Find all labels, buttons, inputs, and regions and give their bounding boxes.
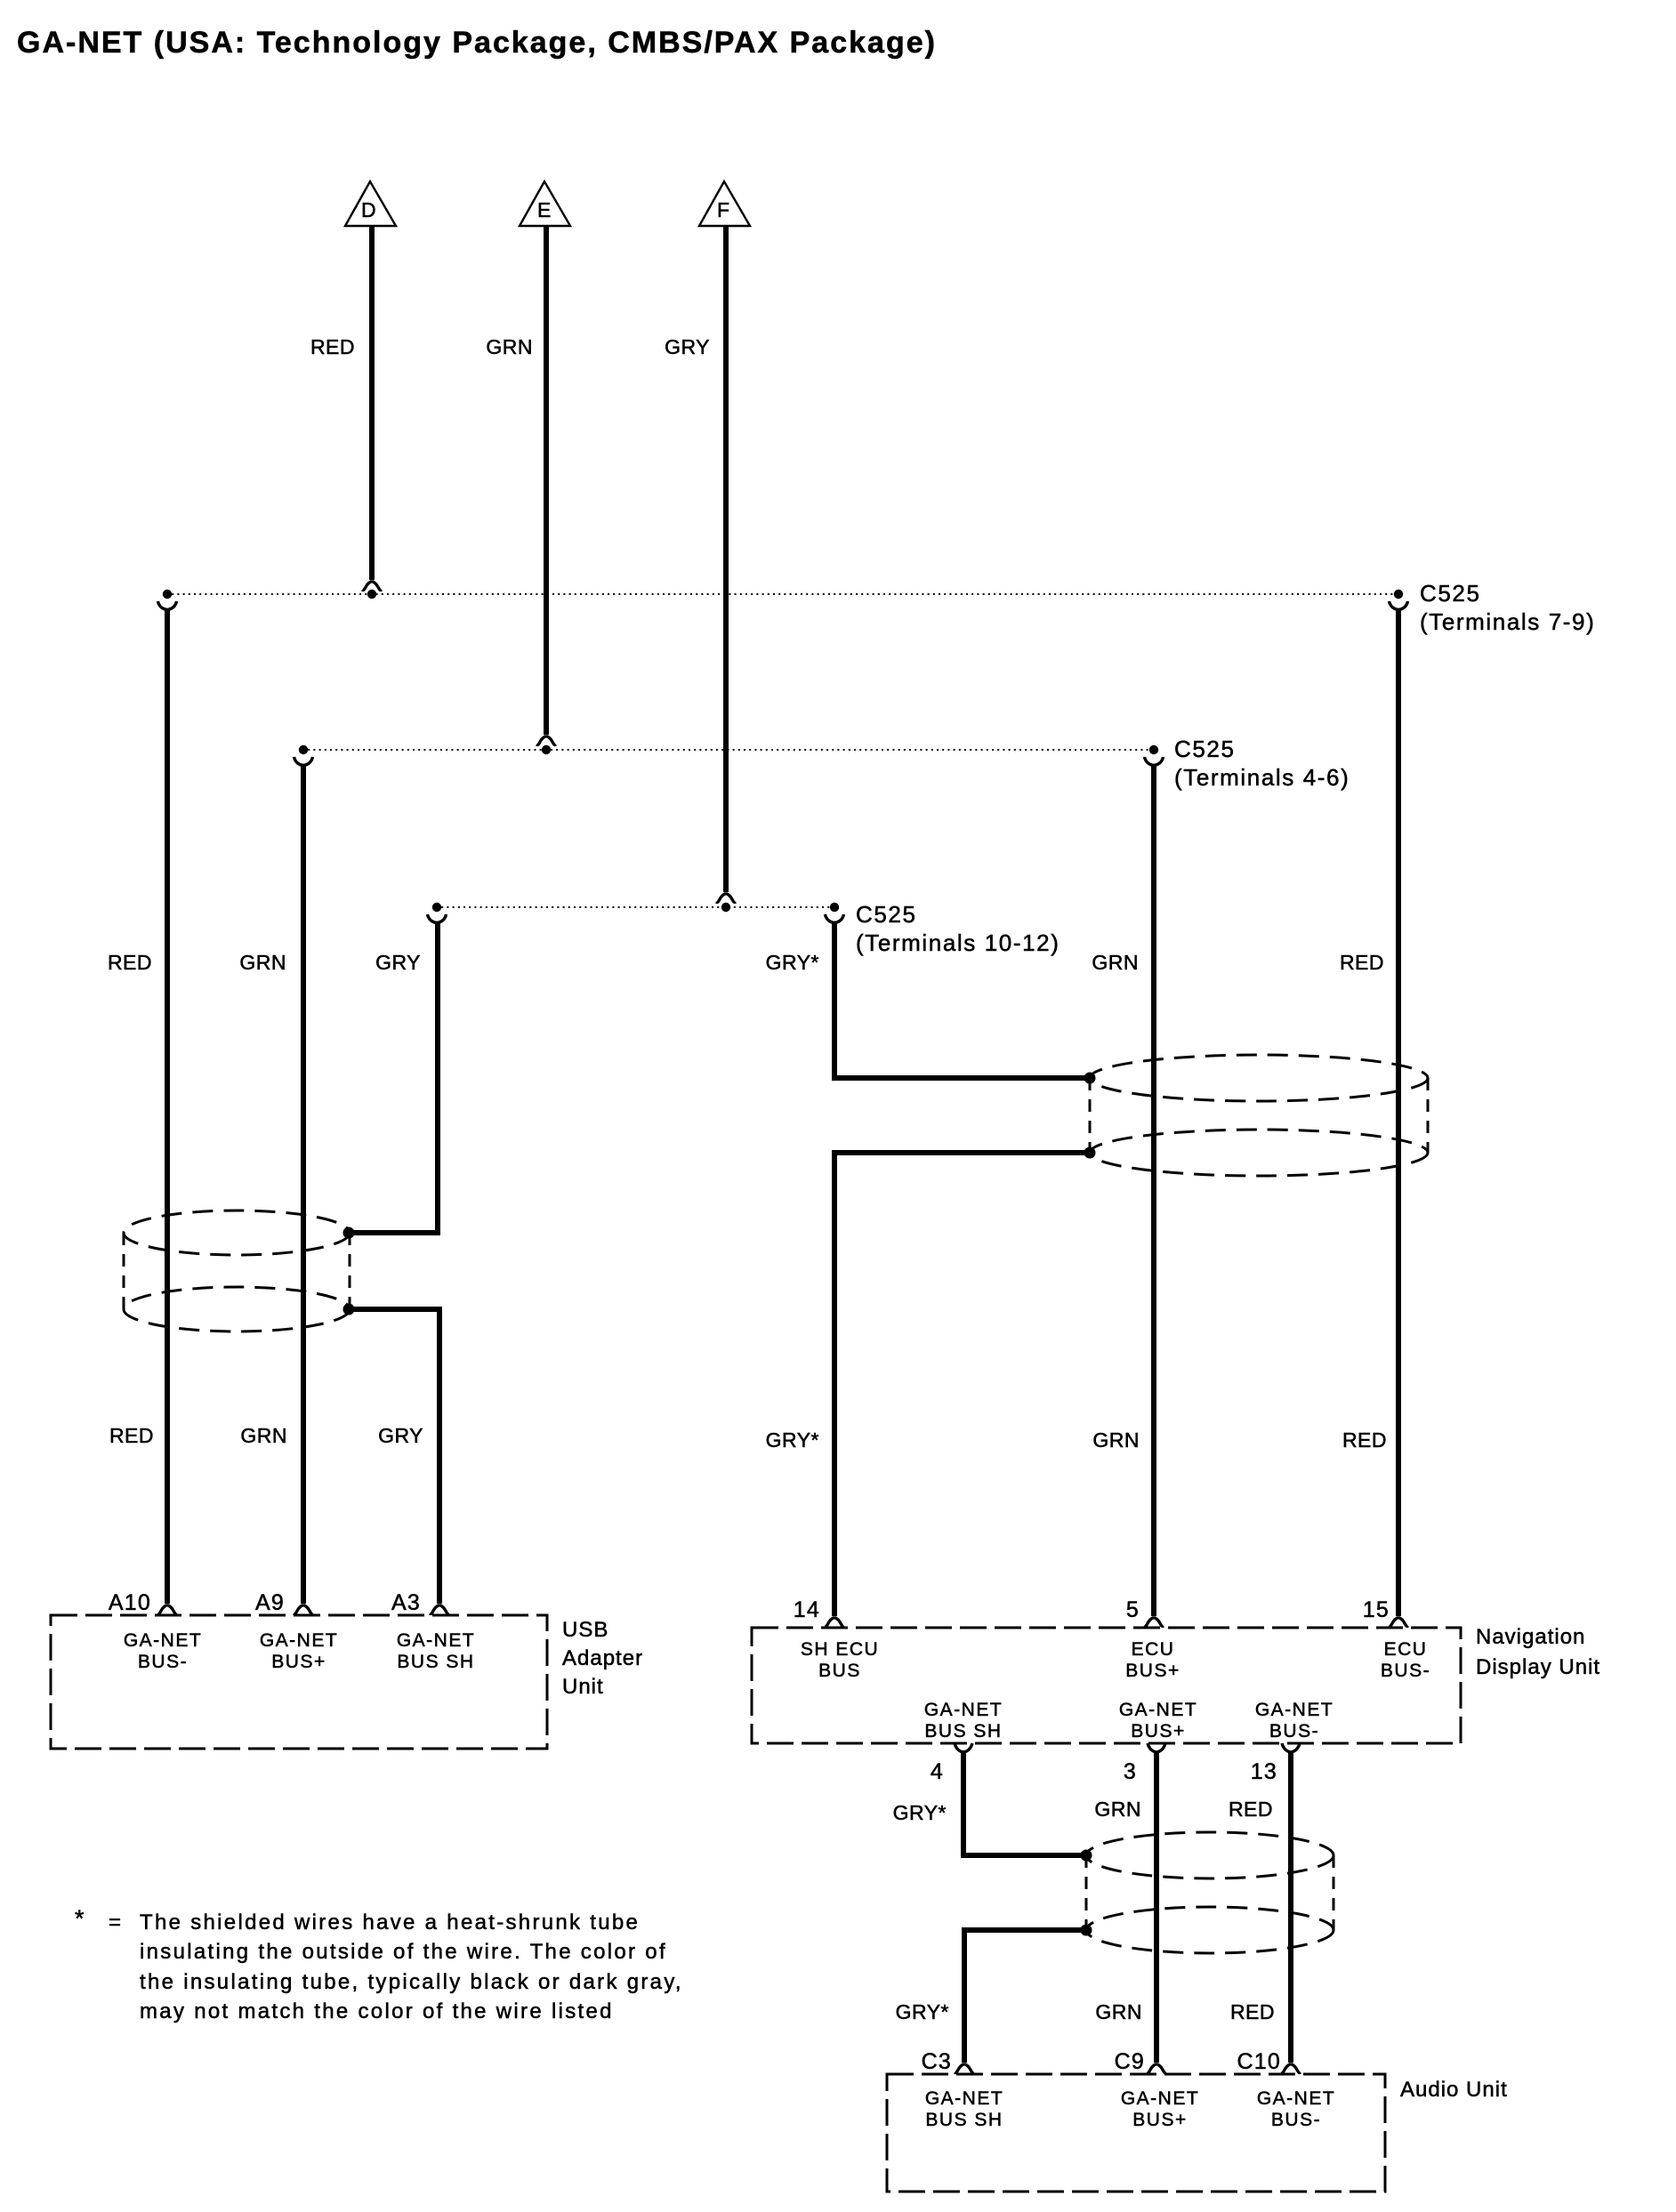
svg-text:GRY: GRY bbox=[665, 335, 710, 358]
wire from triangle D (RED) bbox=[369, 226, 375, 580]
svg-text:BUS-: BUS- bbox=[138, 1652, 188, 1672]
svg-text:RED: RED bbox=[310, 335, 355, 358]
svg-text:GRN: GRN bbox=[1095, 2000, 1142, 2023]
terminal fork into navigation box pin 14 bbox=[825, 1618, 844, 1627]
shield connection dot lower left top bbox=[1081, 1850, 1092, 1862]
svg-text:Display Unit: Display Unit bbox=[1476, 1655, 1600, 1679]
svg-text:E: E bbox=[537, 198, 552, 221]
svg-text:14: 14 bbox=[794, 1597, 820, 1622]
connector triangle E bbox=[520, 181, 570, 226]
junction dot right end row3 bbox=[830, 903, 839, 912]
svg-text:the insulating tube, typically: the insulating tube, typically black or … bbox=[140, 1970, 683, 1994]
Audio Unit box bbox=[887, 2074, 1385, 2192]
svg-text:GA-NET: GA-NET bbox=[260, 1630, 338, 1651]
svg-text:Adapter: Adapter bbox=[562, 1646, 643, 1670]
svg-text:GA-NET: GA-NET bbox=[1257, 2088, 1335, 2109]
wire GRN left branch bbox=[301, 766, 306, 1604]
terminal fork into USB box pin A10 bbox=[157, 1605, 177, 1614]
svg-text:BUS-: BUS- bbox=[1269, 1721, 1319, 1741]
wire RED navigation branch bbox=[1396, 610, 1401, 1616]
svg-text:C9: C9 bbox=[1115, 2049, 1145, 2074]
terminal fork into USB box pin A3 bbox=[430, 1605, 449, 1614]
svg-text:Navigation: Navigation bbox=[1476, 1625, 1585, 1649]
junction dot right end row2 bbox=[1149, 745, 1158, 754]
svg-text:A10: A10 bbox=[109, 1590, 151, 1615]
junction dot at D wire row1 bbox=[367, 590, 376, 599]
wire GRY* navigation branch upper bbox=[834, 923, 1087, 1078]
USB Adapter Unit box bbox=[51, 1615, 547, 1749]
shield connection dot upper right top bbox=[1084, 1073, 1096, 1084]
cup terminal below row3 left dot bbox=[428, 914, 447, 923]
svg-text:GRN: GRN bbox=[239, 951, 286, 974]
svg-text:A3: A3 bbox=[391, 1590, 421, 1615]
connector triangle D bbox=[345, 181, 396, 226]
svg-text:RED: RED bbox=[1340, 951, 1384, 974]
svg-text:=: = bbox=[109, 1910, 121, 1934]
wire from triangle F (GRY) bbox=[723, 226, 729, 892]
svg-text:Unit: Unit bbox=[562, 1675, 604, 1699]
svg-text:4: 4 bbox=[931, 1759, 944, 1784]
svg-text:RED: RED bbox=[108, 951, 152, 974]
svg-text:GRY*: GRY* bbox=[893, 1801, 947, 1824]
svg-text:USB: USB bbox=[562, 1618, 608, 1642]
svg-text:GA-NET: GA-NET bbox=[1121, 2088, 1199, 2109]
terminal fork into audio box pin C3 bbox=[955, 2064, 974, 2073]
svg-text:ECU: ECU bbox=[1384, 1639, 1428, 1660]
svg-text:5: 5 bbox=[1126, 1597, 1140, 1622]
nav pin 3 terminal leaving box bbox=[1148, 1743, 1165, 1756]
svg-text:BUS+: BUS+ bbox=[271, 1652, 326, 1672]
svg-text:GRN: GRN bbox=[240, 1424, 287, 1447]
dotted connector line C525 terminals 10-12 bbox=[436, 906, 834, 908]
wire GRY* audio branch upper bbox=[963, 1753, 1084, 1855]
svg-text:RED: RED bbox=[1230, 2000, 1275, 2023]
svg-text:C525: C525 bbox=[1174, 736, 1236, 762]
junction dot at E wire row2 bbox=[542, 745, 551, 754]
terminal fork into USB box pin A9 bbox=[294, 1605, 313, 1614]
terminal fork into audio box pin C9 bbox=[1147, 2064, 1166, 2073]
svg-text:RED: RED bbox=[109, 1424, 154, 1447]
svg-text:GA-NET: GA-NET bbox=[397, 1630, 475, 1651]
Navigation Display Unit box bbox=[752, 1628, 1461, 1743]
wire RED audio branch bbox=[1288, 1753, 1293, 2063]
left shield cylinder top ellipse bbox=[124, 1211, 350, 1255]
cup terminal below row2 left dot bbox=[294, 757, 313, 766]
svg-text:(Terminals 10-12): (Terminals 10-12) bbox=[856, 929, 1060, 956]
upper right shield cylinder top ellipse bbox=[1090, 1055, 1428, 1101]
junction dot left end row3 bbox=[432, 903, 441, 912]
junction dot at F wire row3 bbox=[721, 903, 730, 912]
cup terminal below row3 right dot bbox=[826, 914, 844, 923]
dotted connector line C525 terminals 7-9 bbox=[166, 593, 1398, 595]
terminal fork into navigation box pin 15 bbox=[1389, 1618, 1408, 1627]
svg-text:BUS-: BUS- bbox=[1271, 2110, 1321, 2130]
terminal fork into navigation box pin 5 bbox=[1144, 1618, 1164, 1627]
svg-text:*: * bbox=[75, 1905, 85, 1932]
nav pin 13 terminal leaving box bbox=[1282, 1743, 1300, 1756]
lower shield side edges bbox=[1085, 1855, 1088, 1930]
svg-text:GRY*: GRY* bbox=[766, 1428, 819, 1452]
terminal fork at E wire end bbox=[536, 736, 556, 745]
svg-text:C525: C525 bbox=[856, 901, 917, 928]
junction dot left end row2 bbox=[299, 745, 308, 754]
shield connection dot upper right bottom bbox=[1084, 1147, 1096, 1159]
svg-text:13: 13 bbox=[1251, 1759, 1277, 1784]
upper right shield cylinder bottom ellipse bbox=[1090, 1130, 1428, 1176]
wire GRY* audio branch lower bbox=[964, 1930, 1084, 2063]
lower shield cylinder bottom ellipse bbox=[1086, 1907, 1334, 1953]
svg-text:ECU: ECU bbox=[1132, 1639, 1175, 1660]
cup terminal below row1 right dot bbox=[1390, 601, 1408, 610]
wire GRY left branch lower bbox=[349, 1309, 439, 1604]
svg-text:3: 3 bbox=[1124, 1759, 1137, 1784]
svg-text:(Terminals 4-6): (Terminals 4-6) bbox=[1174, 764, 1350, 791]
svg-text:GRN: GRN bbox=[486, 335, 533, 358]
svg-text:The shielded wires have a heat: The shielded wires have a heat-shrunk tu… bbox=[140, 1910, 640, 1934]
wire GRN navigation branch bbox=[1151, 766, 1156, 1616]
svg-text:GA-NET: GA-NET bbox=[1119, 1700, 1197, 1720]
svg-text:D: D bbox=[361, 198, 376, 221]
junction dot left end row1 bbox=[163, 590, 172, 599]
svg-text:BUS+: BUS+ bbox=[1132, 2110, 1187, 2130]
upper right shield side edges bbox=[1089, 1078, 1092, 1153]
terminal fork at D wire end bbox=[362, 582, 382, 591]
terminal fork into audio box pin C10 bbox=[1281, 2064, 1301, 2073]
svg-text:A9: A9 bbox=[255, 1590, 285, 1615]
svg-text:C3: C3 bbox=[922, 2049, 952, 2074]
shield connection dot lower bbox=[343, 1304, 355, 1315]
svg-text:15: 15 bbox=[1363, 1597, 1390, 1622]
junction dot right end row1 bbox=[1394, 590, 1403, 599]
svg-text:GA-NET: GA-NET bbox=[924, 1700, 1003, 1720]
svg-text:BUS+: BUS+ bbox=[1131, 1721, 1185, 1741]
svg-text:may not match the color of the: may not match the color of the wire list… bbox=[140, 1999, 614, 2023]
left shield side edges bbox=[123, 1233, 125, 1309]
shield connection dot lower left bottom bbox=[1081, 1925, 1092, 1936]
svg-text:BUS SH: BUS SH bbox=[924, 1721, 1002, 1741]
cup terminal below row1 left dot bbox=[158, 601, 177, 610]
svg-text:GA-NET (USA: Technology Packag: GA-NET (USA: Technology Package, CMBS/PA… bbox=[17, 26, 937, 60]
svg-text:GA-NET: GA-NET bbox=[124, 1630, 202, 1651]
svg-text:GRY*: GRY* bbox=[896, 2000, 949, 2023]
svg-text:GRY: GRY bbox=[378, 1424, 423, 1447]
svg-text:BUS+: BUS+ bbox=[1125, 1661, 1180, 1681]
svg-text:SH ECU: SH ECU bbox=[801, 1639, 879, 1660]
svg-text:GRN: GRN bbox=[1092, 951, 1139, 974]
svg-text:GRY*: GRY* bbox=[766, 951, 819, 974]
svg-text:C525: C525 bbox=[1420, 580, 1481, 607]
svg-text:F: F bbox=[717, 198, 730, 221]
svg-text:BUS SH: BUS SH bbox=[925, 2110, 1003, 2130]
svg-text:GRN: GRN bbox=[1092, 1428, 1140, 1452]
svg-text:RED: RED bbox=[1342, 1428, 1387, 1452]
left shield cylinder bottom ellipse bbox=[124, 1287, 350, 1331]
cup terminal below row2 right dot bbox=[1145, 757, 1164, 766]
dotted connector line C525 terminals 4-6 bbox=[302, 749, 1154, 751]
svg-text:GA-NET: GA-NET bbox=[925, 2088, 1003, 2109]
svg-text:BUS: BUS bbox=[818, 1661, 861, 1681]
nav pin 4 terminal leaving box bbox=[955, 1743, 972, 1756]
wire from triangle E (GRN) bbox=[544, 226, 549, 735]
shield connection dot upper bbox=[343, 1227, 355, 1239]
svg-text:BUS SH: BUS SH bbox=[397, 1652, 474, 1672]
svg-text:GRN: GRN bbox=[1094, 1798, 1141, 1821]
wire GRN audio branch bbox=[1154, 1753, 1159, 2063]
terminal fork at F wire end bbox=[716, 894, 736, 903]
wire GRY left branch upper bbox=[349, 923, 438, 1233]
svg-text:GRY: GRY bbox=[375, 951, 421, 974]
svg-text:BUS-: BUS- bbox=[1381, 1661, 1430, 1681]
svg-text:(Terminals 7-9): (Terminals 7-9) bbox=[1420, 608, 1595, 635]
svg-text:Audio Unit: Audio Unit bbox=[1400, 2078, 1508, 2102]
wire RED left branch bbox=[165, 610, 170, 1604]
svg-text:C10: C10 bbox=[1237, 2049, 1281, 2074]
connector triangle F bbox=[699, 181, 750, 226]
lower shield cylinder top ellipse bbox=[1086, 1832, 1334, 1878]
wire GRY* navigation branch lower bbox=[834, 1153, 1087, 1616]
svg-text:insulating the outside of the: insulating the outside of the wire. The … bbox=[140, 1940, 667, 1964]
svg-text:RED: RED bbox=[1229, 1798, 1273, 1821]
svg-text:GA-NET: GA-NET bbox=[1255, 1700, 1334, 1720]
